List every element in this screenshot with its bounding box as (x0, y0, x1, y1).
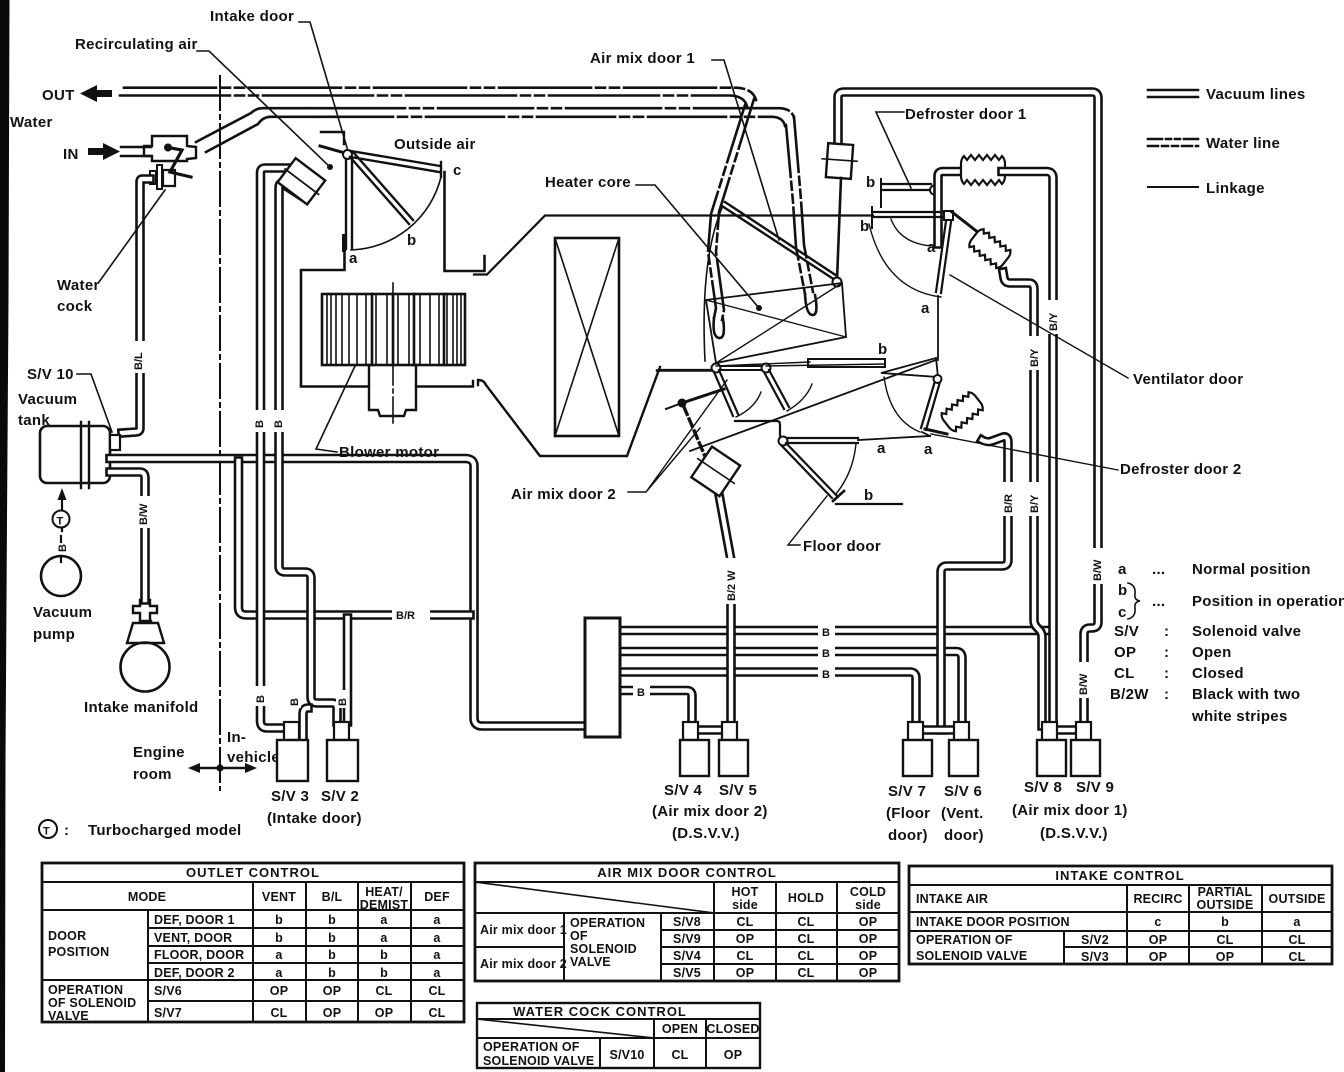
svg-text:B/L: B/L (133, 352, 145, 370)
wire: pipe bellows2 to B/Y left vertical (1003, 272, 1042, 726)
svg-text:CL: CL (736, 949, 753, 963)
svg-text:S/V6: S/V6 (154, 984, 182, 998)
svg-text:a: a (433, 931, 441, 945)
svg-text:cock: cock (57, 298, 93, 315)
svg-text:B: B (289, 698, 301, 706)
air mix door 1 lower quad with X (706, 283, 846, 363)
svg-text:Vacuum lines: Vacuum lines (1206, 86, 1305, 103)
svg-text:(Floor: (Floor (886, 805, 930, 822)
svg-text:POSITION: POSITION (48, 945, 109, 959)
svg-text:OUT: OUT (42, 87, 75, 104)
svg-text:OPERATION: OPERATION (48, 983, 123, 997)
svg-text:IN: IN (63, 146, 79, 163)
linkage defroster2 pivot to bellows2 (952, 212, 984, 237)
svg-text:CL: CL (428, 1006, 445, 1020)
svg-text:HOT: HOT (732, 885, 759, 899)
bellcrank dot and links (678, 399, 687, 408)
labels B/W on right pipe (1091, 548, 1105, 584)
svg-text:CL: CL (1288, 950, 1305, 964)
solenoid valve S/V2 (334, 722, 349, 740)
svg-text:b: b (1118, 582, 1127, 599)
svg-text:a: a (924, 441, 933, 458)
defroster door 2 bellows (rotated) (967, 227, 1013, 271)
water hose to heater core (right) (794, 117, 813, 292)
svg-text:SOLENOID VALVE: SOLENOID VALVE (483, 1054, 594, 1068)
svg-text:PARTIAL: PARTIAL (1198, 885, 1253, 899)
heater core (555, 238, 619, 436)
solenoid valve S/V6 (954, 722, 969, 740)
wire: B pair 2 manifold to S/V6 (620, 652, 962, 723)
svg-text:B/2W: B/2W (1110, 686, 1149, 703)
svg-text:S/V: S/V (1114, 623, 1139, 640)
svg-text:OUTSIDE: OUTSIDE (1197, 898, 1254, 912)
svg-text:b: b (380, 948, 388, 962)
svg-text:Blower motor: Blower motor (339, 444, 439, 461)
svg-text:B/L: B/L (322, 890, 343, 904)
duct right wall + outside-air opening (445, 172, 485, 271)
svg-text:S/V 9: S/V 9 (1076, 779, 1114, 796)
ventilator swing arc (884, 377, 920, 432)
ventilator door triangle (881, 358, 938, 377)
svg-text:B/2 W: B/2 W (726, 570, 738, 601)
svg-text:OP: OP (375, 1006, 393, 1020)
svg-text:CL: CL (1114, 665, 1135, 682)
scan border left edge (0, 0, 10, 1072)
svg-text:INTAKE CONTROL: INTAKE CONTROL (1055, 868, 1184, 883)
svg-text:a: a (1118, 561, 1127, 578)
svg-text:S/V4: S/V4 (673, 949, 701, 963)
svg-text::: : (1164, 686, 1169, 703)
svg-text:B/Y: B/Y (1048, 312, 1060, 331)
wire: B/R tee down to S/V2 (343, 618, 353, 722)
svg-text:COLD: COLD (850, 885, 886, 899)
legend: water line symbol (1148, 138, 1198, 141)
defroster door 1 swing arc (869, 224, 941, 297)
svg-text:Air mix door 2: Air mix door 2 (480, 957, 567, 971)
leader: Defroster door 1 (876, 112, 911, 188)
floor door b line (836, 503, 902, 505)
wire: B/R horizontal with left riser (239, 461, 471, 615)
svg-text:pump: pump (33, 626, 75, 643)
hose end U (right) (805, 294, 816, 315)
leader: Air mix door 1 (712, 60, 779, 240)
floor door pivot (779, 437, 788, 446)
svg-text:Outside air: Outside air (394, 136, 476, 153)
blower housing bottom (301, 367, 714, 456)
long linkage diagonal (690, 360, 936, 451)
svg-text:a: a (275, 948, 283, 962)
table: INTAKE CONTROL (909, 866, 1332, 964)
svg-text:Turbocharged model: Turbocharged model (88, 822, 241, 839)
label B/W (138, 496, 152, 528)
air mix door 2 vane 1 (714, 370, 738, 416)
svg-text:S/V 4: S/V 4 (664, 782, 703, 799)
label B/R (392, 606, 430, 623)
svg-text:b: b (860, 218, 869, 235)
svg-text:S/V8: S/V8 (673, 915, 701, 929)
svg-text:CL: CL (797, 966, 814, 980)
wire: link S/V4-S/V5 necks (697, 725, 725, 735)
svg-text:b: b (328, 931, 336, 945)
leader: Heater core (636, 185, 759, 308)
IN arrow (88, 143, 120, 160)
svg-text:Position in operation: Position in operation (1192, 593, 1344, 610)
dashed link to air mix door 2 actuator (684, 407, 707, 461)
svg-text:Defroster door 1: Defroster door 1 (905, 106, 1027, 123)
legend: linkage symbol (1148, 186, 1198, 188)
water hose to heater core (left) (716, 99, 754, 320)
svg-text:(Air mix door 1): (Air mix door 1) (1012, 802, 1128, 819)
duct line to vent vane (922, 432, 930, 436)
svg-text:b: b (878, 341, 887, 358)
link vent vane to bellows (925, 429, 947, 434)
svg-text:Floor door: Floor door (803, 538, 881, 555)
S/V10 nub on tank (110, 435, 120, 450)
svg-text:Ventilator door: Ventilator door (1133, 371, 1243, 388)
wire: intake actuator pipe A down to S/V3 (261, 168, 293, 728)
T : Turbocharged model (39, 820, 57, 838)
air mix door 2 actuator (687, 444, 744, 499)
svg-text:B/R: B/R (1003, 494, 1015, 513)
defroster door 2 vane a (diagonal double) (936, 221, 951, 293)
svg-text:RECIRC: RECIRC (1133, 892, 1182, 906)
intake door vane c (351, 151, 440, 172)
svg-text:c: c (453, 162, 462, 179)
svg-text:a: a (921, 300, 930, 317)
T circle (turbo) (53, 511, 70, 528)
svg-text:FLOOR, DOOR: FLOOR, DOOR (154, 948, 244, 962)
duct outline below air mix door 2 (659, 370, 784, 440)
svg-text:b: b (407, 232, 416, 249)
svg-text:OP: OP (859, 949, 877, 963)
svg-text:S/V5: S/V5 (673, 966, 701, 980)
svg-text:B/W: B/W (138, 503, 150, 525)
svg-text:CL: CL (797, 949, 814, 963)
thin links from pivots to floor door top vane (716, 362, 884, 366)
svg-text::: : (1164, 623, 1169, 640)
svg-text:AIR MIX DOOR CONTROL: AIR MIX DOOR CONTROL (597, 865, 777, 880)
legend top right (1128, 90, 1198, 619)
svg-text:OP: OP (724, 1048, 742, 1062)
svg-text:c: c (1154, 915, 1161, 929)
svg-text:a: a (275, 966, 283, 980)
linkage actuator to pivot (320, 146, 345, 153)
wire: pipe from bellows right to B/Y right (1002, 172, 1053, 727)
svg-text:HOLD: HOLD (788, 891, 824, 905)
svg-text:B: B (254, 420, 266, 428)
svg-text:a: a (380, 931, 388, 945)
air mix door 2 vane 2 (764, 370, 789, 409)
svg-text:DEF, DOOR 1: DEF, DOOR 1 (154, 913, 235, 927)
wire: link S/V7-S/V6 necks (921, 725, 958, 735)
air mix door 1 vane (upper diagonal, double) (722, 202, 837, 280)
wire: B pair 1 manifold to S/V8 (620, 626, 1048, 636)
svg-text:S/V 2: S/V 2 (321, 788, 359, 805)
svg-text:Water: Water (10, 114, 53, 131)
svg-text:B: B (57, 544, 69, 552)
svg-text:OP: OP (1149, 950, 1167, 964)
svg-text:(D.S.V.V.): (D.S.V.V.) (672, 825, 740, 842)
water cock (150, 171, 156, 184)
svg-text:B/W: B/W (1078, 673, 1090, 695)
wire: tank pipe to B/R run (110, 459, 586, 727)
svg-text:S/V3: S/V3 (1081, 950, 1109, 964)
svg-text:Intake door: Intake door (210, 8, 294, 25)
svg-text:tank: tank (18, 412, 50, 429)
svg-text:CL: CL (428, 984, 445, 998)
svg-text:room: room (133, 766, 172, 783)
svg-text:HEAT/: HEAT/ (365, 885, 403, 899)
blower motor drum (322, 294, 465, 365)
svg-text:OP: OP (1114, 644, 1136, 661)
svg-text:Air mix door 1: Air mix door 1 (590, 50, 695, 67)
svg-text:SOLENOID: SOLENOID (570, 942, 637, 956)
wire: intake actuator pipe B to S/V2 (279, 184, 337, 723)
label B/L (133, 341, 146, 373)
svg-text:INTAKE AIR: INTAKE AIR (916, 892, 988, 906)
svg-text:B: B (273, 420, 285, 428)
leader: Floor door (788, 496, 827, 545)
defroster door 1 vane b (horizontal) (882, 184, 931, 190)
svg-text:OP: OP (1216, 950, 1234, 964)
svg-text:T: T (43, 826, 50, 838)
svg-text:a: a (433, 913, 441, 927)
svg-text:CL: CL (375, 984, 392, 998)
svg-text:OP: OP (323, 984, 341, 998)
svg-text:S/V9: S/V9 (673, 932, 701, 946)
svg-text:Open: Open (1192, 644, 1232, 661)
svg-text:OUTLET CONTROL: OUTLET CONTROL (186, 865, 320, 880)
water line IN (lower pair, dashed) (196, 108, 310, 142)
solenoid valve S/V8 (1042, 722, 1057, 740)
svg-text:Intake manifold: Intake manifold (84, 699, 199, 716)
intake door vane b (350, 153, 413, 224)
air mix door 1 pivot (833, 278, 842, 287)
svg-text:WATER COCK CONTROL: WATER COCK CONTROL (513, 1004, 687, 1019)
svg-text:S/V10: S/V10 (609, 1048, 644, 1062)
heater case wall below (937, 296, 939, 360)
labels B on pipes (253, 410, 266, 432)
svg-text:DOOR: DOOR (48, 929, 86, 943)
svg-text:S/V 8: S/V 8 (1024, 779, 1062, 796)
bottom S/V labels (652, 779, 1128, 844)
svg-text:OF: OF (570, 929, 588, 943)
air mix door 1 swing arc (704, 208, 722, 361)
duct left wall (301, 249, 345, 386)
table: AIR MIX DOOR CONTROL (475, 863, 899, 981)
svg-text:b: b (328, 966, 336, 980)
OUT arrow (80, 85, 112, 102)
wire: engine-room / in-vehicle boundary dash-dot line (219, 76, 221, 790)
water line OUT (upper pair, dashed) (124, 88, 756, 100)
blower motor body (369, 365, 416, 416)
vacuum pump circle (41, 556, 81, 596)
svg-text:CL: CL (736, 915, 753, 929)
intake door swing arc (351, 177, 441, 250)
svg-text:B: B (822, 669, 830, 681)
water valve body (144, 136, 196, 161)
hose end U (left) (714, 318, 724, 338)
solenoid valve S/V4 (683, 722, 698, 740)
svg-text::: : (1164, 644, 1169, 661)
svg-text:Recirculating air: Recirculating air (75, 36, 198, 53)
table: OUTLET CONTROL (42, 863, 464, 1022)
svg-text:white stripes: white stripes (1191, 708, 1288, 725)
svg-text:CLOSED: CLOSED (706, 1022, 759, 1036)
svg-text:DEF, DOOR 2: DEF, DOOR 2 (154, 966, 235, 980)
leader: Water cock (99, 190, 165, 282)
svg-text:Solenoid valve: Solenoid valve (1192, 623, 1301, 640)
wire: B/W pipe tank to intake manifold (110, 472, 145, 600)
vacuum tank (40, 426, 110, 483)
solenoid valve S/V9 (1076, 722, 1091, 740)
svg-text:a: a (1293, 915, 1301, 929)
svg-text:OPERATION OF: OPERATION OF (483, 1040, 580, 1054)
svg-text:b: b (328, 948, 336, 962)
svg-text:OP: OP (1149, 933, 1167, 947)
intake door vane a (vertical, double) (346, 159, 352, 249)
svg-text:(D.S.V.V.): (D.S.V.V.) (1040, 825, 1108, 842)
svg-text:b: b (328, 913, 336, 927)
ventilator door vane (921, 381, 940, 430)
svg-text:Air mix door 2: Air mix door 2 (511, 486, 616, 503)
legend: brace for b c (1128, 583, 1140, 619)
svg-text:a: a (433, 948, 441, 962)
svg-text:B/W: B/W (1092, 559, 1104, 581)
svg-text:(Air mix door 2): (Air mix door 2) (652, 803, 768, 820)
svg-text:Vacuum: Vacuum (33, 604, 92, 621)
svg-text:Linkage: Linkage (1206, 180, 1265, 197)
svg-text:MODE: MODE (128, 890, 166, 904)
labels B on pairs (818, 622, 835, 639)
svg-text:side: side (732, 898, 758, 912)
svg-text:Black with two: Black with two (1192, 686, 1300, 703)
svg-text:B: B (337, 698, 349, 706)
leader: Ventilator door (950, 275, 1128, 378)
svg-text:...: ... (1152, 593, 1165, 610)
svg-text:a: a (380, 913, 388, 927)
svg-text:Defroster door 2: Defroster door 2 (1120, 461, 1242, 478)
wire: pipe bellows3 to B/R right down to S/V7 (941, 437, 1008, 730)
wire: link S/V8-S/V9 necks (1052, 725, 1082, 735)
svg-text:INTAKE DOOR POSITION: INTAKE DOOR POSITION (916, 915, 1070, 929)
leader: Blower motor (316, 366, 355, 452)
svg-text:b: b (380, 966, 388, 980)
svg-text:DEMIST: DEMIST (360, 898, 409, 912)
svg-text:VALVE: VALVE (48, 1009, 89, 1023)
svg-text:Water: Water (57, 277, 100, 294)
wire: B line manifold to S/V4 (620, 691, 692, 723)
svg-text:Closed: Closed (1192, 665, 1244, 682)
svg-text:S/V 3: S/V 3 (271, 788, 309, 805)
svg-text:...: ... (1152, 561, 1165, 578)
svg-text:SOLENOID VALVE: SOLENOID VALVE (916, 949, 1027, 963)
svg-text:B: B (255, 695, 267, 703)
tie rod between pivots (720, 366, 762, 370)
wire: B pair 3 manifold to S/V7 (620, 672, 916, 722)
vacuum manifold block (585, 618, 620, 737)
svg-text:OP: OP (859, 966, 877, 980)
svg-text:CL: CL (1216, 933, 1233, 947)
svg-text:Vacuum: Vacuum (18, 391, 77, 408)
svg-text:a: a (433, 966, 441, 980)
wire: B/2W pipe actuator to S/V5 (718, 489, 731, 722)
svg-text:b: b (275, 931, 283, 945)
svg-text:door): door) (944, 827, 984, 844)
svg-text:B: B (822, 648, 830, 660)
solenoid valve S/V3 (284, 722, 299, 740)
duct outline top (recirc opening) (321, 132, 344, 144)
heater case top-left diagonal (474, 216, 873, 275)
svg-text:OP: OP (859, 915, 877, 929)
svg-text:In-: In- (227, 729, 246, 746)
svg-text:B/Y: B/Y (1029, 494, 1041, 513)
svg-text:CL: CL (797, 932, 814, 946)
engine room / in-vehicle arrow (196, 767, 250, 770)
svg-text:Heater core: Heater core (545, 174, 631, 191)
svg-text:OPEN: OPEN (662, 1022, 698, 1036)
svg-text:CL: CL (1288, 933, 1305, 947)
svg-text:side: side (855, 898, 881, 912)
svg-text:S/V2: S/V2 (1081, 933, 1109, 947)
svg-text:a: a (877, 440, 886, 457)
leader: Defroster door 2 (931, 434, 1118, 470)
blower axis dash-dot (392, 283, 394, 424)
air mix door 2 left pivot (712, 364, 721, 373)
svg-text:S/V 7: S/V 7 (888, 783, 926, 800)
svg-text:(Vent.: (Vent. (941, 805, 984, 822)
solenoid valve S/V5 (722, 722, 737, 740)
svg-text:a: a (927, 239, 936, 256)
IN stub lines into valve (121, 147, 151, 156)
svg-text:S/V7: S/V7 (154, 1006, 182, 1020)
swing arcs (736, 392, 761, 417)
svg-text:B: B (637, 687, 645, 699)
table: WATER COCK CONTROL (477, 1003, 760, 1068)
svg-text:S/V 6: S/V 6 (944, 783, 982, 800)
svg-text:Air mix door 1: Air mix door 1 (480, 923, 567, 937)
arrow into tank bottom (61, 496, 63, 531)
intake door pivot (343, 150, 352, 159)
svg-text::: : (64, 822, 69, 839)
svg-text:OP: OP (736, 966, 754, 980)
svg-text:b: b (866, 174, 875, 191)
solenoid valve S/V7 (908, 722, 923, 740)
svg-text:door): door) (888, 827, 928, 844)
svg-text:OPERATION OF: OPERATION OF (916, 933, 1013, 947)
svg-text:S/V 10: S/V 10 (27, 366, 74, 383)
svg-text:b: b (275, 913, 283, 927)
svg-text:a: a (349, 250, 358, 267)
svg-text:CL: CL (797, 915, 814, 929)
svg-text:CL: CL (270, 1006, 287, 1020)
defroster door 1 pivot (930, 186, 939, 195)
svg-text:b: b (1221, 915, 1229, 929)
svg-text:b: b (864, 487, 873, 504)
svg-text:OPERATION: OPERATION (570, 916, 645, 930)
leader: S/V 10 (77, 374, 112, 432)
svg-text:B: B (822, 627, 830, 639)
svg-text:CL: CL (671, 1048, 688, 1062)
svg-text:VALVE: VALVE (570, 955, 611, 969)
svg-text:VENT: VENT (262, 890, 296, 904)
svg-text:vehicle: vehicle (227, 749, 280, 766)
svg-text:B/R: B/R (396, 610, 415, 622)
svg-text:VENT, DOOR: VENT, DOOR (154, 931, 232, 945)
dashes + B label to pump (60, 536, 62, 562)
floor door a vane (horizontal double) (786, 438, 858, 443)
svg-text:DEF: DEF (424, 890, 450, 904)
